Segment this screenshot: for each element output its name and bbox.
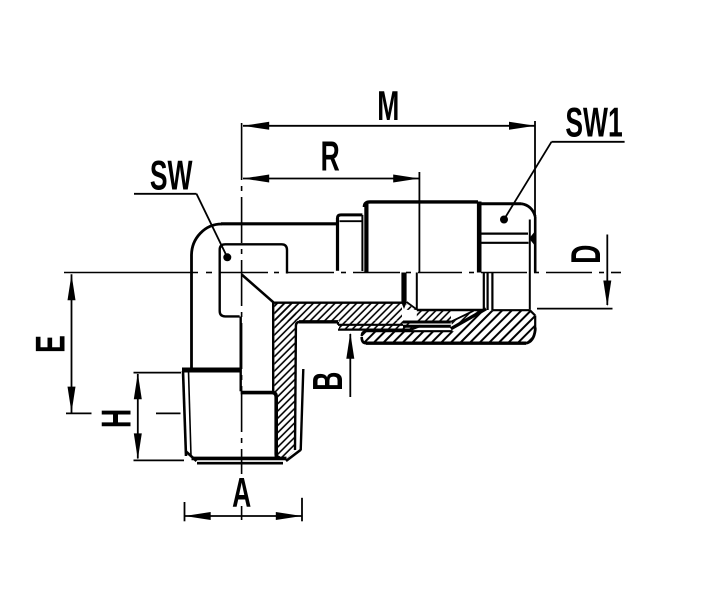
body end face below centerline bbox=[483, 273, 485, 311]
stud thread crest right in section bbox=[301, 369, 304, 451]
svg-text:R: R bbox=[321, 133, 340, 180]
dimension M bbox=[243, 83, 535, 216]
svg-text:H: H bbox=[93, 409, 140, 428]
elbow arm top edge bbox=[221, 222, 338, 225]
main hex body left edge bbox=[364, 204, 368, 272]
main hex body top edge bbox=[364, 202, 478, 207]
dimension A bbox=[185, 470, 303, 521]
horizontal centerline of side port bbox=[64, 272, 621, 274]
nut right face bbox=[530, 217, 535, 273]
body wall top edge in section bbox=[273, 302, 402, 304]
dimension R bbox=[243, 133, 419, 272]
label SW with leader bbox=[134, 153, 231, 262]
collar between body and arm bbox=[338, 215, 363, 271]
dimension H bbox=[93, 373, 184, 461]
nut top edge bbox=[481, 202, 521, 205]
stud thread crest left bbox=[183, 371, 186, 456]
body lip bottom edge bbox=[338, 326, 421, 330]
stud thread root left bbox=[189, 371, 192, 456]
section hatch: body lower lip bbox=[339, 321, 420, 329]
step edge on body lip bbox=[338, 322, 403, 325]
cone seat diagonal bbox=[451, 309, 486, 329]
svg-text:A: A bbox=[232, 470, 251, 517]
body/nut junction thick edge bbox=[477, 202, 482, 273]
body wall bottom edge in section bbox=[299, 320, 338, 323]
collet thin release diagonal bbox=[451, 311, 474, 322]
dimension E bbox=[27, 274, 180, 413]
stud thread root right in section bbox=[295, 322, 300, 450]
wrench flats SW rounded outline bbox=[220, 244, 287, 316]
svg-text:B: B bbox=[305, 372, 352, 391]
svg-text:SW: SW bbox=[150, 153, 193, 200]
svg-text:D: D bbox=[563, 245, 610, 264]
section hatch: collet area right of tooth bbox=[407, 304, 416, 310]
dimension D bbox=[537, 235, 613, 309]
section hatch: body horizontal wall bbox=[275, 304, 403, 321]
nut hex facet lines bbox=[481, 231, 535, 246]
tube end edge below centerline bbox=[416, 273, 418, 310]
dimension B bbox=[305, 333, 354, 397]
label SW1 with leader bbox=[500, 99, 625, 223]
svg-text:M: M bbox=[377, 83, 399, 130]
stud bottom chamfer right bbox=[286, 450, 301, 461]
nut top right chamfer bbox=[522, 204, 536, 217]
vertical centerline of bottom port bbox=[241, 123, 243, 520]
section hatch: body vertical wall / threaded stud bbox=[275, 304, 297, 460]
collet dark lines to cone bbox=[403, 322, 451, 326]
counterbore cut edge at centerline bbox=[239, 317, 241, 392]
counterbore bottom thick edge bbox=[241, 393, 280, 458]
section hatch: nut lower wall bbox=[362, 309, 536, 343]
nut inner chamfer edge below centerline bbox=[529, 273, 531, 310]
svg-text:SW1: SW1 bbox=[565, 99, 622, 146]
stud top face bbox=[182, 368, 241, 373]
section hatch: body ring above cone bbox=[417, 311, 484, 329]
tube bore bottom edge bbox=[417, 309, 484, 311]
elbow body outer corner arc and left edge bbox=[191, 224, 221, 368]
stud bottom chamfer left bbox=[186, 452, 197, 462]
svg-text:E: E bbox=[27, 335, 74, 353]
nut bore step edges bbox=[488, 273, 493, 311]
collet tooth bbox=[401, 273, 416, 310]
counterbore right wall bbox=[272, 302, 274, 392]
nut bottom edge bbox=[362, 328, 536, 344]
stud bottom face bbox=[192, 458, 287, 463]
nut lower wall outline bbox=[362, 310, 536, 336]
counterbore chamfer diagonal bbox=[242, 275, 274, 303]
